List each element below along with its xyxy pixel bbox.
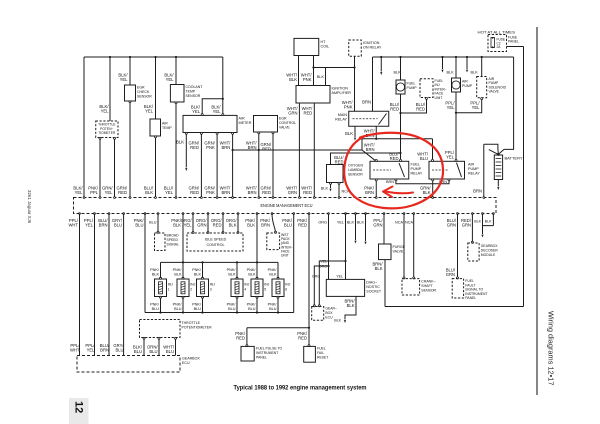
svg-text:PPL/WHT: PPL/WHT: [70, 343, 80, 353]
wire bus to battery: [498, 57, 513, 154]
wire ORG to diagnostic socket: [328, 214, 330, 280]
wire connector drop 2: [441, 56, 443, 58]
wire INJ2 feed: [182, 262, 184, 278]
svg-text:Wiring diagrams 12•17: Wiring diagrams 12•17: [547, 311, 556, 385]
svg-text:PNK/BLK: PNK/BLK: [150, 268, 160, 276]
wire BLK/YEL drop to ECU: [83, 57, 85, 198]
pin INJ5 top: [256, 277, 258, 279]
svg-text:PPL/YEL: PPL/YEL: [470, 101, 480, 111]
pin throttle pot out 1: [99, 137, 101, 139]
wire BLU/RED fuel pump to relay: [400, 94, 402, 161]
svg-text:WHT/BRN: WHT/BRN: [364, 143, 376, 153]
wire BLK sensor ground: [330, 184, 332, 188]
wire battery negative ground: [497, 180, 499, 187]
fuel fault signal to instrument panel (dashed): [452, 279, 463, 298]
wire GRN/RED to ECU: [129, 103, 131, 198]
wire WHT/BRN to ECU: [258, 134, 260, 198]
svg-text:PPL/GRN: PPL/GRN: [373, 218, 383, 228]
throttle potentiometer (dashed): [96, 121, 118, 138]
svg-text:PNK/RED: PNK/RED: [235, 331, 246, 341]
pin crank sensor in 2: [413, 277, 415, 279]
svg-text:BLU/RED: BLU/RED: [390, 102, 400, 112]
fuel injection interface unit (dashed): [420, 79, 433, 98]
fuel pump motor: [396, 80, 405, 94]
svg-text:WHT/PNK: WHT/PNK: [342, 100, 354, 110]
wire PPL/WHT to gearbox ECU: [79, 214, 81, 356]
wire INJ1 return: [160, 298, 162, 313]
wire PNK/RED branch to fuel pulse: [247, 328, 309, 345]
fuel pump relay: [370, 161, 409, 179]
air temp sensor: [150, 119, 161, 136]
wire PNK/BRN relay to ECU: [375, 181, 377, 198]
svg-text:GRN/RED: GRN/RED: [261, 142, 272, 152]
svg-text:PNK/BLU: PNK/BLU: [282, 218, 293, 228]
svg-text:BLK: BLK: [357, 221, 365, 225]
wire WHT/BLU pot2 to gearbox ECU: [175, 339, 177, 355]
node junction ORG: [327, 265, 329, 267]
svg-text:BLK: BLK: [317, 75, 325, 79]
svg-text:ORG: ORG: [318, 221, 327, 225]
air pump relay switch blade: [457, 163, 462, 177]
svg-text:BRN/BLK: BRN/BLK: [344, 299, 355, 309]
pin gearbox decoder in: [471, 241, 473, 243]
svg-text:PNK/RED: PNK/RED: [297, 218, 308, 228]
svg-text:BLK: BLK: [345, 131, 353, 136]
svg-text:PNK/BLU: PNK/BLU: [150, 303, 160, 311]
fuel pump relay switch blade: [399, 163, 405, 177]
wire PPL/YEL join: [456, 92, 482, 161]
svg-text:WHT/BRN: WHT/BRN: [220, 141, 232, 151]
svg-text:HOT AT ALL TIMES: HOT AT ALL TIMES: [478, 31, 517, 35]
wire PNK/BLK to ECU (inj5): [256, 214, 258, 263]
svg-text:IGNITIONON RELAY: IGNITIONON RELAY: [363, 41, 382, 50]
ignition on relay (dashed): [349, 40, 362, 56]
wire to EGR check sensor: [129, 57, 131, 85]
pin air meter out 1: [185, 132, 187, 134]
pin INJ4 top: [236, 277, 238, 279]
wire BRN main relay to supply bus: [372, 57, 374, 111]
node bus junction x176: [175, 56, 177, 58]
svg-text:YEL: YEL: [320, 259, 327, 263]
injector INJ1: [155, 279, 167, 297]
wire WHT/BRN bus to relays: [233, 149, 362, 151]
red annotation arrow: [386, 192, 414, 194]
svg-text:OXYGENLAMBDASENSOR: OXYGENLAMBDASENSOR: [348, 164, 363, 177]
svg-text:BLK/YEL: BLK/YEL: [191, 105, 201, 115]
coolant temp sensor: [170, 85, 184, 103]
svg-text:BLK/YEL: BLK/YEL: [118, 73, 128, 83]
wire to throttle potentiometer: [109, 57, 111, 121]
svg-text:BLK: BLK: [471, 71, 479, 75]
svg-text:GRN/YEL: GRN/YEL: [102, 186, 113, 196]
pin INJ4 bottom: [236, 296, 238, 298]
svg-text:PNK/BLU: PNK/BLU: [192, 303, 202, 311]
wire ORG/BLK to idle speed control: [237, 214, 239, 232]
svg-text:YEL: YEL: [337, 221, 344, 225]
svg-text:BLK: BLK: [485, 220, 492, 224]
svg-text:NCA: NCA: [405, 221, 413, 225]
idle speed control (dashed): [187, 233, 243, 251]
pin fuel relay top 1: [375, 159, 377, 161]
node rail junction INJ3 bottom: [201, 311, 203, 313]
svg-text:WHT/GRN: WHT/GRN: [286, 186, 298, 196]
wire BLU/GRN to fuel fault signal: [457, 214, 459, 278]
svg-text:BLU/GRN: BLU/GRN: [447, 218, 457, 228]
node air meter feed junction: [222, 98, 224, 100]
pin gearbox ecu2 in 1: [313, 305, 315, 307]
pin INJ3 bottom: [202, 296, 204, 298]
pin EGR valve out 1: [258, 132, 260, 134]
wire top-left supply bus: [84, 56, 223, 58]
main relay switch blade: [379, 114, 387, 125]
wire RED/GRN to gearbox decoder: [471, 214, 473, 242]
svg-text:BLK/YEL: BLK/YEL: [144, 104, 154, 114]
wire NCA sensor to ECU: [338, 184, 340, 197]
fuel pump relay coil (dashed): [373, 169, 391, 171]
pin INJ2 bottom: [182, 296, 184, 298]
svg-text:WHT/BRN: WHT/BRN: [246, 186, 258, 196]
svg-text:NCA: NCA: [395, 221, 403, 225]
wire INJ4 return: [236, 298, 238, 313]
svg-text:YEL: YEL: [336, 275, 343, 279]
wire INJ6 feed: [277, 262, 279, 278]
crankshaft sensor (dashed): [402, 279, 420, 295]
svg-text:ENGINE MANAGEMENT ECU: ENGINE MANAGEMENT ECU: [261, 203, 313, 208]
svg-text:ORG: ORG: [319, 265, 327, 269]
svg-text:PNK/BLK: PNK/BLK: [245, 218, 256, 228]
wire to air pump: [455, 56, 457, 58]
wire ignition on relay to main relay: [354, 56, 356, 111]
wire GRN/RED to ECU: [200, 134, 202, 197]
svg-text:Typical 1988 to 1992 engine ma: Typical 1988 to 1992 engine management s…: [234, 385, 367, 392]
node junction: [455, 112, 457, 114]
svg-text:BLU/BRN: BLU/BRN: [98, 218, 108, 228]
wire connector drop 3: [466, 56, 468, 58]
fuel pulse sender: [241, 346, 254, 361]
node bus junction x110: [109, 56, 111, 58]
svg-text:RED/GRN: RED/GRN: [461, 218, 472, 228]
pin INJ6 bottom: [277, 296, 279, 298]
wire BLK main relay ground: [354, 126, 356, 137]
wire PPL/YEL to gearbox ECU: [94, 214, 96, 356]
fuel fail reset: [304, 346, 316, 362]
wire right loop feed: [385, 47, 524, 307]
node rail junction INJ5 top: [256, 261, 258, 263]
injector INJ4: [231, 279, 243, 297]
pin fuel pulse in: [246, 345, 248, 347]
svg-text:PPL/WHT: PPL/WHT: [68, 218, 78, 228]
injector INJ3: [197, 279, 209, 297]
svg-text:PNK/BRN: PNK/BRN: [260, 218, 271, 228]
wire BLU/BRN to gearbox ECU: [108, 214, 110, 356]
pin INJ2 top: [182, 277, 184, 279]
wire ORG branch to gearbox ecu 2: [314, 266, 328, 305]
svg-text:BLK/YEL: BLK/YEL: [99, 104, 109, 114]
wire WHT/BRN to ECU: [232, 134, 234, 197]
pin air relay top 1: [432, 159, 434, 161]
wire fuse output: [507, 46, 524, 48]
wire INJ5 feed: [256, 262, 258, 278]
svg-text:PNK/BLK: PNK/BLK: [192, 268, 202, 276]
svg-text:WHT/BRN: WHT/BRN: [220, 186, 232, 196]
node rail junction INJ2 top: [182, 261, 184, 263]
node rail junction INJ2 bottom: [182, 311, 184, 313]
pins ECU top connectors: [83, 197, 85, 199]
pin throttle pot out 2: [114, 137, 116, 139]
wire INJ4 feed: [236, 262, 238, 278]
right sidebar rule: [536, 27, 538, 395]
pin INJ5 bottom: [256, 296, 258, 298]
EGR control valve: [254, 116, 278, 133]
wire WHT/RED to ECU: [313, 103, 315, 198]
wire INJ6 return: [277, 298, 279, 313]
node rail junction INJ1 bottom: [159, 311, 161, 313]
svg-text:PPL/YEL: PPL/YEL: [445, 101, 455, 111]
svg-text:GRY/BLU: GRY/BLU: [112, 218, 123, 228]
svg-text:PNK/BLU: PNK/BLU: [134, 218, 145, 228]
wire BLU to broad speed signal: [157, 214, 159, 232]
wire WHT/PNK coil to amplifier: [313, 56, 315, 86]
svg-text:PNK/BRN: PNK/BRN: [364, 186, 375, 196]
pin inst pack in: [275, 231, 277, 233]
svg-text:WHT/BRN: WHT/BRN: [246, 141, 258, 151]
node WHT/PNK junction: [312, 66, 314, 68]
node junction: [399, 152, 401, 154]
wire GRN/RED to ECU: [272, 134, 274, 198]
svg-text:PPL/YEL: PPL/YEL: [84, 218, 94, 228]
pin air relay top 2: [455, 159, 457, 161]
injector INJ2: [177, 279, 189, 297]
svg-text:ORG/GRN: ORG/GRN: [196, 218, 208, 228]
svg-text:WHT/PNK: WHT/PNK: [301, 73, 313, 83]
diagnostic socket: [326, 279, 364, 296]
pin INJ1 bottom: [160, 296, 162, 298]
wire BLU/RED interface to fuel pump net: [401, 99, 427, 113]
svg-text:PNK/PPL: PNK/PPL: [88, 186, 99, 196]
wire battery feed west: [484, 144, 499, 154]
svg-text:BLU: BLU: [149, 221, 157, 225]
svg-text:BLK: BLK: [474, 220, 481, 224]
svg-text:BLU/GRN: BLU/GRN: [446, 268, 456, 278]
svg-text:ORG/RED: ORG/RED: [211, 218, 223, 228]
fuse panel (dashed): [488, 35, 507, 52]
wire bus drop to air meter: [222, 57, 224, 115]
wire BLK link to ignition on relay feed: [314, 67, 355, 69]
wire NCA to crankshaft sensor 2: [413, 214, 415, 278]
node rail junction INJ6 bottom: [277, 311, 279, 313]
wire PNK/BLU injector return rail: [145, 312, 294, 314]
wire to fuel pump: [399, 56, 401, 58]
svg-text:BLK: BLK: [347, 221, 355, 225]
pin EGR valve out 2: [272, 132, 274, 134]
node junction: [308, 327, 310, 329]
air pump motor: [452, 78, 461, 92]
wire PNK/BLK injector supply rail: [161, 261, 279, 263]
wire GRN/PNK to ECU: [216, 134, 218, 197]
wire YEL branch to gearbox ecu 2: [319, 261, 345, 305]
ignition amplifier: [296, 86, 330, 104]
wire PPL/GRN to purge valve: [383, 214, 385, 245]
pin fuel relay bottom 1: [375, 179, 377, 181]
wire NCA to crankshaft sensor 1: [403, 214, 405, 278]
svg-text:ORG: ORG: [312, 275, 320, 279]
svg-text:PNK/BLU: PNK/BLU: [247, 303, 257, 311]
main relay coil (dashed): [353, 118, 378, 120]
svg-text:WHT/BLU: WHT/BLU: [417, 152, 429, 162]
wire BLU/BLK to ECU: [155, 138, 157, 198]
pin pot2 out 1: [143, 337, 145, 339]
svg-text:BLK: BLK: [176, 140, 184, 145]
svg-text:12: 12: [73, 401, 85, 413]
svg-text:PNK/BLU: PNK/BLU: [173, 303, 183, 311]
svg-text:BLK/YEL: BLK/YEL: [211, 105, 221, 115]
wire BRN/BLK socket ground: [345, 296, 356, 319]
svg-text:PPL/YEL: PPL/YEL: [85, 343, 95, 353]
injector INJ5: [251, 279, 263, 297]
svg-text:GRN/BLK: GRN/BLK: [420, 186, 431, 196]
wire GRY/BLU to gearbox ECU: [123, 214, 125, 356]
wire right supply bus: [373, 56, 514, 58]
svg-text:BLU/BRN: BLU/BRN: [100, 343, 110, 353]
svg-text:BRN: BRN: [362, 100, 371, 105]
node bus junction x155.5: [154, 56, 156, 58]
wire to air temp sensor: [155, 57, 157, 119]
pin fuel relay top 2: [400, 159, 402, 161]
wire BLU/RED sensor feed: [331, 153, 401, 165]
wire PNK/RED to fuel fail reset: [308, 214, 310, 345]
svg-text:BLK: BLK: [334, 319, 341, 323]
pin fuel fail in: [308, 345, 310, 347]
svg-text:BLK/YEL: BLK/YEL: [73, 186, 83, 196]
wire WHT/GRN to ECU: [298, 103, 300, 198]
svg-text:GRN/RED: GRN/RED: [261, 186, 272, 196]
node junction: [353, 66, 355, 68]
wire BLK ECU ground right 2: [483, 214, 494, 226]
svg-text:IDLE SPEED: IDLE SPEED: [205, 238, 227, 242]
svg-text:PNK/BLK: PNK/BLK: [173, 268, 183, 276]
svg-text:GRN/PNK: GRN/PNK: [204, 141, 215, 151]
pin sensor out 1: [330, 182, 332, 184]
gearbox ECU (dashed): [77, 356, 180, 373]
pin INJ3 top: [202, 277, 204, 279]
svg-text:BLK: BLK: [321, 187, 329, 191]
svg-text:BLK: BLK: [394, 71, 402, 75]
pin pot2 out 3: [175, 337, 177, 339]
svg-text:WHT/GRN: WHT/GRN: [287, 106, 299, 116]
svg-text:BATTERY: BATTERY: [505, 156, 523, 161]
svg-text:BLU/RED: BLU/RED: [334, 155, 344, 165]
svg-text:GRN/RED: GRN/RED: [189, 141, 200, 151]
fuse C2 2A: [491, 38, 495, 48]
pins ECU bottom connectors: [79, 213, 81, 215]
wire WHT/BRN link run: [362, 139, 433, 162]
svg-text:WHT/BLU: WHT/BLU: [163, 345, 175, 355]
pin INJ6 top: [277, 277, 279, 279]
pin broad speed in: [157, 231, 159, 233]
pin fuel relay bottom 2: [395, 179, 397, 181]
svg-text:3261 Jaguar XJ6: 3261 Jaguar XJ6: [27, 190, 32, 224]
svg-text:PNK/BLK: PNK/BLK: [171, 218, 182, 228]
wire GRN/YEL to ECU: [114, 139, 116, 197]
svg-text:GRY/BLU: GRY/BLU: [113, 343, 124, 353]
svg-text:GRN/RED: GRN/RED: [189, 186, 200, 196]
svg-text:CONTROL: CONTROL: [206, 243, 224, 247]
svg-text:PNK/BLK: PNK/BLK: [227, 268, 237, 276]
wire INJ2 return: [182, 298, 184, 313]
wire INJ3 feed: [202, 262, 204, 278]
wire WHT/BLK coil to amplifier: [298, 56, 300, 86]
wire connector drop 1: [380, 56, 382, 58]
svg-text:BLU/RED: BLU/RED: [416, 102, 426, 112]
pin air meter out 2: [200, 132, 202, 134]
wire BLK ECU ground right 1: [482, 214, 484, 235]
node rail junction INJ4 top: [236, 261, 238, 263]
gearbox decoder module (dashed): [468, 243, 479, 261]
wire BLK with ground arrow: [185, 134, 187, 167]
wire PNK/BLU to ECU (left): [144, 214, 146, 313]
pin air meter top 1: [201, 114, 203, 116]
node rail junction INJ3 top: [201, 261, 203, 263]
svg-text:BRN: BRN: [386, 180, 394, 184]
broad speed signal (dashed): [155, 233, 166, 251]
wire INJ3 return: [202, 298, 204, 313]
wire BLK ECU drop 2: [365, 214, 367, 242]
throttle potentiometer 2 (dashed): [140, 320, 181, 338]
engine management ECU (dashed): [74, 198, 497, 214]
wire to air pump solenoid valve: [481, 56, 483, 58]
svg-text:BLK/BLU: BLK/BLU: [133, 345, 143, 355]
svg-text:GRN/PNK: GRN/PNK: [204, 186, 215, 196]
svg-text:MAINRELAY: MAINRELAY: [335, 113, 347, 122]
svg-text:PNK/BLK: PNK/BLK: [247, 268, 257, 276]
svg-text:GRN/RED: GRN/RED: [117, 186, 128, 196]
pin INJ1 top: [160, 277, 162, 279]
node WHT/BRN junction: [375, 138, 377, 140]
wire amplifier BLK pin: [325, 68, 327, 86]
svg-text:BLK: BLK: [447, 71, 455, 75]
wire air meter feed bracket: [202, 99, 223, 116]
instrument pack interface (dashed): [267, 233, 280, 250]
pin pot2 out 2: [158, 337, 160, 339]
svg-text:BLU/YEL: BLU/YEL: [164, 186, 174, 196]
svg-text:BRN: BRN: [473, 189, 482, 194]
pin solenoid out: [481, 98, 483, 100]
svg-text:WHT/RED: WHT/RED: [302, 106, 314, 116]
wire WHT/BRN main relay output: [375, 126, 377, 139]
svg-text:BROADSPEEDSIGNAL: BROADSPEEDSIGNAL: [167, 234, 180, 247]
red annotation ellipse: [344, 133, 443, 209]
wire ORG/RED to idle speed control: [222, 214, 224, 232]
svg-text:BLU/BLK: BLU/BLK: [144, 186, 154, 196]
node EGR valve bus junction: [258, 149, 260, 151]
pin sensor out 2: [338, 182, 340, 184]
wire PNK/BLK to ECU (inj2): [182, 214, 184, 263]
air pump relay: [429, 161, 465, 179]
wire GRN/BLK relay to ECU: [432, 181, 434, 198]
node junction YEL: [344, 260, 346, 262]
svg-text:PNK/RED: PNK/RED: [297, 331, 308, 341]
purge valve: [379, 244, 392, 260]
wire BLK ECU drop 1: [355, 214, 357, 241]
svg-text:WHT/RED: WHT/RED: [301, 186, 313, 196]
pin interface unit out: [426, 97, 428, 99]
EGR check sensor: [125, 85, 136, 101]
node junction: [399, 112, 401, 114]
wire PNK/PPL to ECU: [99, 139, 101, 197]
wire BLU/YEL to ECU: [175, 104, 177, 198]
wire YEL to diagnostic socket: [345, 214, 347, 280]
pin coolant sensor out: [175, 102, 177, 104]
